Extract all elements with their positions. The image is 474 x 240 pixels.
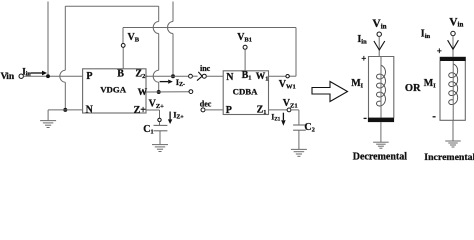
- svg-text:CDBA: CDBA: [233, 87, 259, 97]
- svg-text:dec: dec: [200, 99, 212, 108]
- wire inc to N pin: [206, 75, 223, 77]
- wire VB1 to B1 pin: [244, 49, 246, 71]
- inductor coil decremental: [377, 65, 386, 106]
- inc connector arrow: [197, 72, 202, 81]
- svg-text:VDGA: VDGA: [100, 85, 127, 95]
- ground decremental: [373, 142, 389, 148]
- ground under C1: [152, 145, 168, 152]
- symbol big arrow: [312, 82, 348, 102]
- label minus incremental: [433, 116, 436, 118]
- op-amp block CDBA: [223, 71, 268, 115]
- wire Z2 output row: [146, 75, 188, 77]
- svg-text:Z+: Z+: [134, 105, 147, 116]
- svg-text:Incremental: Incremental: [424, 152, 474, 161]
- wire Z1 output: [269, 109, 288, 111]
- svg-text:in: in: [6, 72, 15, 82]
- node Z+ terminal: [158, 118, 161, 121]
- node junction on W wire: [157, 90, 161, 94]
- bar electrode incremental: [440, 57, 466, 61]
- label minus decremental: [364, 117, 367, 119]
- label IZ1 with arrow: [282, 113, 284, 121]
- arrow Iin decremental (open head): [374, 41, 385, 50]
- svg-text:N: N: [226, 72, 234, 83]
- wire top horizontal: [65, 5, 158, 7]
- bar electrode decremental: [368, 118, 394, 123]
- svg-text:B: B: [117, 69, 124, 80]
- node VB terminal: [121, 44, 125, 48]
- label IZ- with arrow: [160, 81, 169, 83]
- wire W output: [146, 91, 189, 93]
- node junction Vin column: [46, 74, 50, 78]
- capacitor C2: [293, 124, 306, 126]
- svg-text:+: +: [437, 46, 442, 56]
- wire VB drop to B pin: [122, 28, 124, 44]
- svg-text:W: W: [138, 88, 148, 98]
- inductor box incremental: [440, 61, 465, 120]
- wire dec to P pin: [205, 109, 223, 111]
- node junction on N wire: [63, 108, 67, 112]
- wire into incremental box: [452, 36, 454, 57]
- svg-text:inc: inc: [200, 64, 211, 73]
- capacitor C1: [159, 122, 161, 126]
- wire inc link: [192, 75, 197, 77]
- node W open terminal: [189, 90, 193, 94]
- arrow Iin incremental (open head): [448, 40, 459, 49]
- inductor box decremental: [369, 57, 394, 118]
- svg-text:Decremental: Decremental: [353, 152, 407, 161]
- node dec open terminal: [201, 108, 205, 112]
- label IZ+ with arrow: [169, 112, 171, 120]
- node Vin terminal incremental: [451, 31, 455, 35]
- wire vertical from top edge to Z2 node with hop: [172, 2, 174, 22]
- ground under C2: [291, 149, 307, 156]
- wire Z1 to C2: [291, 109, 299, 111]
- node inc link terminal a: [189, 74, 193, 78]
- wire vertical right (top wire to W row) with hops: [158, 6, 160, 21]
- wire into decremental box: [378, 36, 380, 56]
- node Vin terminal decremental: [377, 32, 381, 36]
- node junction on Z2 wire: [171, 74, 175, 78]
- wire W1 feedback (right end of VB wire down and to W1 pin): [295, 28, 297, 77]
- wire ground stem left: [47, 110, 49, 120]
- wire vertical left (top wire to N row) with hop over P wire: [64, 6, 66, 70]
- node W1 terminal: [286, 75, 289, 78]
- wire N row: [48, 109, 83, 111]
- svg-text:P: P: [226, 105, 232, 116]
- svg-text:P: P: [86, 71, 92, 82]
- wire incremental to ground: [452, 120, 454, 141]
- op-amp block VDGA: [83, 69, 146, 113]
- node Vin input terminal: [19, 74, 23, 78]
- inductor coil incremental: [449, 64, 458, 105]
- node inc link terminal b: [202, 74, 206, 78]
- wire vertical from top edge to Vin node: [47, 2, 49, 75]
- node VZ1 terminal: [287, 108, 291, 112]
- ground incremental: [445, 141, 461, 147]
- wire Z+ to capacitor: [146, 109, 160, 111]
- arrow Iin: [31, 72, 43, 74]
- node VB1 terminal: [243, 45, 247, 49]
- svg-text:OR: OR: [405, 83, 421, 94]
- wire Vin to P pin: [23, 75, 82, 77]
- wire VB horizontal: [123, 27, 296, 29]
- wire decremental to ground: [380, 122, 382, 142]
- svg-text:N: N: [86, 104, 94, 115]
- svg-text:+: +: [361, 54, 366, 64]
- ground under input: [40, 121, 56, 128]
